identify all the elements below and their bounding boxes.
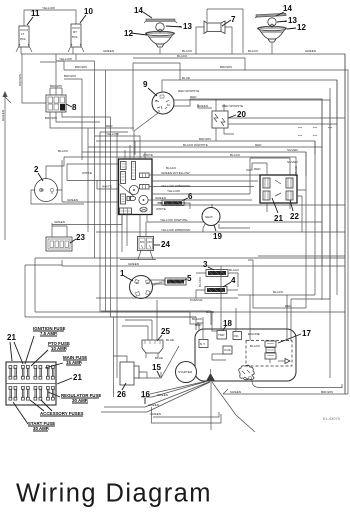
wires fuse block top bbox=[100, 312, 345, 317]
svg-text:RED W/WHITE: RED W/WHITE bbox=[222, 104, 243, 108]
svg-text:YELLOW: YELLOW bbox=[106, 132, 119, 136]
wire green to relay20 bbox=[197, 99, 243, 141]
svg-text:PURPLE: PURPLE bbox=[190, 298, 202, 302]
wire bottom left nest bbox=[152, 407, 222, 423]
svg-text:GREEN: GREEN bbox=[1, 110, 5, 121]
fuse bar 5 bbox=[165, 278, 186, 285]
horn 7 bbox=[204, 9, 225, 34]
label 1 bbox=[120, 269, 133, 281]
left vertical bus cluster bbox=[82, 61, 117, 397]
svg-text:GREEN: GREEN bbox=[230, 390, 241, 394]
svg-text:STARTER: STARTER bbox=[178, 370, 193, 374]
svg-text:12: 12 bbox=[297, 23, 306, 32]
svg-text:YELLOW: YELLOW bbox=[59, 57, 72, 61]
fuse bar 3 bbox=[206, 270, 228, 277]
fuse bar 4 bbox=[205, 287, 227, 294]
svg-text:23: 23 bbox=[76, 233, 85, 242]
label 19 bbox=[213, 225, 222, 241]
svg-text:HDL: HDL bbox=[72, 35, 78, 39]
temp box bbox=[217, 331, 227, 340]
svg-text:8: 8 bbox=[72, 103, 77, 112]
ignition switch 9 bbox=[152, 92, 174, 114]
svg-text:BROWN: BROWN bbox=[220, 65, 232, 69]
svg-text:RED: RED bbox=[254, 167, 261, 171]
svg-text:BLACK: BLACK bbox=[182, 49, 193, 53]
svg-text:YELLOW: YELLOW bbox=[42, 6, 55, 10]
wire sw11 down bbox=[18, 54, 64, 103]
svg-text:BROWN: BROWN bbox=[64, 74, 76, 78]
svg-text:21: 21 bbox=[274, 214, 283, 223]
svg-text:SEAT: SEAT bbox=[205, 215, 213, 219]
wire horn top bbox=[207, 9, 243, 53]
svg-text:22: 22 bbox=[290, 212, 299, 221]
svg-text:BLACK: BLACK bbox=[250, 344, 261, 348]
wire red bus y99 bbox=[174, 95, 322, 300]
label 25 bbox=[157, 327, 170, 341]
wires below block bbox=[122, 215, 146, 253]
label 26 bbox=[117, 383, 126, 399]
svg-text:26: 26 bbox=[117, 390, 126, 399]
svg-text:19: 19 bbox=[213, 232, 222, 241]
wires relay top bbox=[246, 158, 299, 194]
block wires right side bbox=[148, 166, 260, 200]
fuse r1c2 bbox=[22, 366, 30, 380]
svg-text:BLUE: BLUE bbox=[155, 356, 163, 360]
label 14 right bbox=[276, 4, 292, 16]
svg-text:WHITE: WHITE bbox=[156, 207, 166, 211]
svg-text:6: 6 bbox=[188, 192, 193, 201]
svg-text:GREEN: GREEN bbox=[197, 104, 208, 108]
svg-text:BLACK: BLACK bbox=[248, 49, 259, 53]
svg-text:BROWN: BROWN bbox=[75, 65, 87, 69]
solenoid blob bbox=[239, 365, 255, 380]
wire horn left drop bbox=[196, 27, 232, 54]
nt box bbox=[199, 340, 208, 348]
hour meter 2 bbox=[35, 179, 58, 202]
svg-text:BLACK: BLACK bbox=[166, 166, 177, 170]
wires connector 24 down bbox=[120, 251, 156, 260]
svg-text:NO: NO bbox=[140, 240, 145, 244]
relay box 21-22 bbox=[260, 175, 297, 212]
label 8 bbox=[66, 103, 77, 112]
label 10 bbox=[80, 7, 93, 23]
block bottom-left connector bbox=[120, 208, 132, 214]
wire x133 ignition drop bbox=[133, 63, 180, 131]
lamp 12 left dome bbox=[146, 31, 175, 54]
svg-text:61-43079: 61-43079 bbox=[323, 416, 341, 421]
svg-text:BLUE: BLUE bbox=[182, 76, 190, 80]
wire yellow top bus between 11 and 10 bbox=[24, 6, 76, 26]
main harness block bbox=[119, 159, 153, 215]
label 14 left bbox=[134, 6, 152, 18]
wires above connector 8 bbox=[40, 54, 76, 95]
svg-text:7: 7 bbox=[231, 15, 236, 24]
wire red y324 bbox=[35, 312, 202, 330]
label 7 bbox=[222, 15, 236, 26]
svg-text:LT: LT bbox=[21, 32, 24, 36]
svg-text:4: 4 bbox=[231, 276, 236, 285]
wire green to block y202 bbox=[62, 190, 119, 202]
wire band y152 bbox=[82, 148, 306, 176]
svg-text:SILVER: SILVER bbox=[287, 160, 299, 164]
label 21 fuse top bbox=[7, 333, 23, 364]
wire blue right col bbox=[248, 256, 345, 308]
svg-text:YELLOW: YELLOW bbox=[167, 189, 180, 193]
svg-text:14: 14 bbox=[134, 6, 143, 15]
bracket 14 left bbox=[144, 19, 177, 23]
bulb 13 left bbox=[156, 23, 164, 32]
wire bottom green-brown y394 bbox=[223, 389, 348, 394]
wire green left y397 bbox=[101, 393, 168, 416]
block right 3pin bbox=[140, 185, 150, 190]
svg-text:RT: RT bbox=[73, 30, 77, 34]
svg-text:YELLOW W/BROWN: YELLOW W/BROWN bbox=[161, 228, 190, 232]
bulb 13 right bbox=[268, 18, 276, 27]
svg-text:13: 13 bbox=[183, 22, 192, 31]
wire yellow-wwhite band bbox=[147, 201, 345, 222]
svg-text:18: 18 bbox=[223, 319, 232, 328]
wire starter diagonal bbox=[138, 346, 179, 378]
wire white label left bbox=[67, 164, 119, 189]
fuse block outline bbox=[6, 362, 56, 405]
label 24 bbox=[154, 240, 170, 249]
connector 23 bbox=[46, 237, 72, 251]
svg-text:BLUE: BLUE bbox=[166, 338, 174, 342]
svg-text:GREEN: GREEN bbox=[148, 403, 159, 407]
wire black y317 bbox=[25, 317, 203, 330]
label 2 bbox=[34, 165, 43, 181]
svg-text:RED: RED bbox=[190, 95, 197, 99]
engine outline bbox=[195, 329, 296, 381]
block pin strip top-left bbox=[121, 162, 127, 170]
svg-text:3: 3 bbox=[203, 260, 208, 269]
wire black y58 bbox=[133, 54, 245, 70]
svg-text:HDL: HDL bbox=[20, 37, 26, 41]
switch 10 bbox=[68, 24, 84, 54]
svg-text:BROWN: BROWN bbox=[45, 116, 57, 120]
svg-text:9: 9 bbox=[143, 80, 148, 89]
block diagonal bbox=[120, 185, 135, 197]
label ignition fuse bbox=[25, 326, 66, 364]
svg-text:P: P bbox=[136, 281, 138, 285]
svg-text:WHITE: WHITE bbox=[102, 185, 112, 189]
wire bar4 sides bbox=[196, 276, 238, 290]
svg-text:GREEN: GREEN bbox=[54, 220, 65, 224]
svg-text:BLACK: BLACK bbox=[229, 268, 240, 272]
oil box bbox=[233, 332, 242, 340]
block pin column middle bbox=[132, 162, 136, 180]
svg-text:2: 2 bbox=[34, 165, 39, 174]
title text bbox=[16, 480, 212, 508]
label 13 left bbox=[166, 22, 192, 31]
svg-text:YELLOW W/BROWN: YELLOW W/BROWN bbox=[161, 184, 190, 188]
label 21 fuse right bbox=[57, 373, 82, 384]
fuse r1c4 bbox=[47, 366, 55, 380]
svg-text:S: S bbox=[158, 109, 160, 113]
fuse r1c1 bbox=[9, 366, 17, 380]
svg-text:BLACK: BLACK bbox=[230, 153, 241, 157]
fuse bar 6 bbox=[157, 200, 190, 209]
label main fuse bbox=[45, 355, 87, 368]
svg-text:BROWN: BROWN bbox=[18, 74, 22, 86]
label 6 bbox=[182, 192, 193, 201]
svg-text:TMP: TMP bbox=[218, 333, 225, 337]
ground fan wires bbox=[145, 381, 255, 432]
wire band black y141 bbox=[58, 137, 315, 155]
wire block top stubs bbox=[125, 141, 145, 159]
label 4 bbox=[223, 276, 236, 287]
label 21 relay bbox=[272, 198, 283, 223]
wires connector 23 up bbox=[52, 215, 122, 238]
svg-text:P: P bbox=[147, 281, 149, 285]
wire band y132 bbox=[100, 131, 128, 133]
svg-text:7.5 AMP.: 7.5 AMP. bbox=[40, 331, 58, 336]
wire black bus y295 bbox=[238, 290, 315, 295]
wire pto to bar5 orange bbox=[150, 279, 166, 287]
svg-text:14: 14 bbox=[283, 4, 292, 13]
svg-text:WHITE: WHITE bbox=[82, 171, 92, 175]
svg-text:30 AMP.: 30 AMP. bbox=[72, 398, 88, 403]
svg-text:10: 10 bbox=[84, 7, 93, 16]
svg-text:11: 11 bbox=[31, 9, 40, 18]
block oval small bbox=[127, 197, 136, 201]
svg-text:BLACK: BLACK bbox=[198, 276, 202, 287]
wire yellow y61 bbox=[56, 57, 95, 61]
wire white below bar6 bbox=[156, 207, 166, 211]
svg-text:21: 21 bbox=[73, 373, 82, 382]
regulator dashed box 17 bbox=[246, 341, 292, 367]
svg-text:OIL: OIL bbox=[234, 334, 239, 338]
label 11 bbox=[27, 9, 40, 25]
wire battery top bbox=[113, 356, 127, 362]
lamp 12 right dome bbox=[258, 26, 287, 54]
wire crossbumps right bbox=[298, 127, 332, 136]
svg-text:25: 25 bbox=[161, 327, 170, 336]
svg-text:GREEN: GREEN bbox=[103, 49, 114, 53]
fuse r2c3 bbox=[34, 387, 42, 401]
svg-text:10 AMP.: 10 AMP. bbox=[51, 346, 67, 351]
wire band yellow y136 bbox=[95, 132, 141, 147]
connector 25 bbox=[142, 340, 163, 358]
svg-text:BLACK W/WHITE: BLACK W/WHITE bbox=[183, 143, 208, 147]
svg-text:16: 16 bbox=[141, 390, 150, 399]
svg-text:24: 24 bbox=[161, 240, 170, 249]
wire ignition to right red-white bbox=[174, 89, 330, 378]
block circle mid bbox=[129, 185, 138, 194]
wire green right bottom labels bbox=[230, 390, 333, 394]
block right 2pin bbox=[140, 173, 150, 178]
svg-text:17: 17 bbox=[302, 329, 311, 338]
wire seat switch down bbox=[96, 224, 345, 232]
regulator stack bbox=[265, 341, 276, 363]
relay 20 small bbox=[212, 111, 228, 128]
block circle right bbox=[139, 195, 148, 204]
wire purple bus bbox=[96, 290, 238, 302]
svg-text:GREEN: GREEN bbox=[157, 393, 168, 397]
label 12 left bbox=[124, 29, 147, 38]
wire left green arrow bbox=[1, 91, 11, 240]
svg-text:RED W/WHITE: RED W/WHITE bbox=[178, 89, 199, 93]
fuse r2c4 bbox=[47, 387, 55, 401]
svg-text:15: 15 bbox=[152, 363, 161, 372]
battery 26 bbox=[120, 362, 147, 385]
fuse r2c2 bbox=[22, 387, 30, 401]
svg-text:BLUE: BLUE bbox=[294, 166, 298, 174]
wire silver label vertical bbox=[294, 166, 298, 174]
switch 11 bbox=[16, 26, 32, 54]
label 23 bbox=[70, 233, 85, 243]
wire left col down bbox=[25, 258, 345, 317]
wires into engine top bbox=[197, 266, 291, 341]
block pin strip left lower bbox=[121, 194, 126, 204]
label 18 bbox=[223, 319, 232, 330]
part number bbox=[323, 416, 341, 421]
fuse r1c3 bbox=[34, 366, 42, 380]
wire brown y79 bbox=[64, 74, 82, 79]
svg-text:GREEN: GREEN bbox=[128, 262, 139, 266]
svg-text:WHITE: WHITE bbox=[143, 153, 153, 157]
wire hourmeter left loop bbox=[31, 160, 84, 204]
ground lug bbox=[206, 369, 215, 381]
label start fuse bbox=[13, 402, 55, 431]
starter motor bbox=[176, 362, 197, 383]
label accessory fuses bbox=[30, 400, 83, 416]
label 13 right bbox=[277, 16, 297, 25]
bottom right channel line bbox=[252, 381, 342, 388]
svg-text:30 AMP.: 30 AMP. bbox=[33, 426, 49, 431]
wires relay sides bbox=[297, 190, 306, 232]
svg-text:GREEN W/YELLOW: GREEN W/YELLOW bbox=[161, 171, 190, 175]
label 15 bbox=[152, 363, 161, 377]
pto clutch 1 bbox=[130, 276, 153, 299]
connector 24 bbox=[138, 237, 154, 251]
label 16 bbox=[141, 390, 150, 404]
svg-text:GREEN: GREEN bbox=[155, 196, 166, 200]
right vertical bus cluster bbox=[291, 54, 345, 394]
wire red bus y308 bbox=[253, 304, 306, 308]
svg-text:M: M bbox=[167, 103, 170, 107]
svg-text:Wiring Diagram: Wiring Diagram bbox=[16, 480, 212, 508]
label 5 bbox=[182, 274, 192, 283]
svg-text:RED: RED bbox=[197, 321, 204, 325]
wires below connector 8 bbox=[45, 112, 111, 129]
wire bar3 sides bbox=[196, 268, 240, 287]
svg-text:21: 21 bbox=[7, 333, 16, 342]
block pin strip left bbox=[121, 172, 126, 184]
label 3 bbox=[203, 260, 214, 270]
svg-text:SILVER: SILVER bbox=[287, 148, 299, 152]
label 22 relay bbox=[290, 200, 299, 221]
label 20 bbox=[228, 110, 246, 119]
wires above connector 25 bbox=[122, 300, 174, 360]
svg-text:RED: RED bbox=[106, 124, 113, 128]
seat switch 19 bbox=[202, 204, 220, 228]
connector 8 bbox=[46, 95, 66, 112]
svg-text:BLACK: BLACK bbox=[273, 290, 284, 294]
svg-text:RED: RED bbox=[255, 143, 262, 147]
svg-text:COIL: COIL bbox=[224, 348, 232, 352]
label pto fuse bbox=[31, 341, 70, 366]
wire top bus green-black y53 bbox=[21, 49, 345, 394]
bracket 14 right bbox=[255, 13, 286, 18]
wire ignition B to right blue bbox=[162, 76, 337, 295]
svg-text:YELLOW W/WHITE: YELLOW W/WHITE bbox=[160, 218, 188, 222]
svg-text:GREEN: GREEN bbox=[67, 198, 78, 202]
svg-text:5: 5 bbox=[187, 274, 192, 283]
svg-text:B: B bbox=[155, 99, 157, 103]
svg-text:BLACK: BLACK bbox=[177, 54, 188, 58]
wire right mid horizontals bbox=[228, 118, 345, 124]
wire band red y128 bbox=[88, 124, 134, 128]
svg-text:15 AMP.: 15 AMP. bbox=[66, 360, 82, 365]
label 9 bbox=[143, 80, 157, 96]
svg-text:BROWN: BROWN bbox=[321, 390, 333, 394]
regulator arrow bbox=[278, 359, 290, 364]
label 17 bbox=[278, 329, 311, 343]
svg-text:BROWN: BROWN bbox=[199, 137, 211, 141]
svg-text:GREEN: GREEN bbox=[305, 49, 316, 53]
block bottom oval bbox=[140, 207, 147, 212]
wire band blackwhite y147 bbox=[88, 143, 322, 147]
wire green above pto bbox=[62, 260, 345, 266]
svg-text:BLACK: BLACK bbox=[58, 149, 69, 153]
fuse r2c1 bbox=[9, 387, 17, 401]
wire band y157 bbox=[64, 153, 296, 176]
svg-text:ACCESSORY FUSES: ACCESSORY FUSES bbox=[40, 411, 83, 416]
label 12 right bbox=[287, 23, 306, 32]
label regulator fuse bbox=[48, 392, 101, 403]
coil box bbox=[212, 346, 232, 360]
wire ignition bottom diagonal bbox=[134, 113, 158, 158]
wire hourmeter top to blue bbox=[46, 157, 64, 179]
wire blue bus y311 bbox=[101, 310, 214, 325]
svg-text:N.T.: N.T. bbox=[200, 342, 206, 346]
svg-text:NO: NO bbox=[147, 240, 152, 244]
wire brown bus y70 bbox=[64, 65, 348, 394]
